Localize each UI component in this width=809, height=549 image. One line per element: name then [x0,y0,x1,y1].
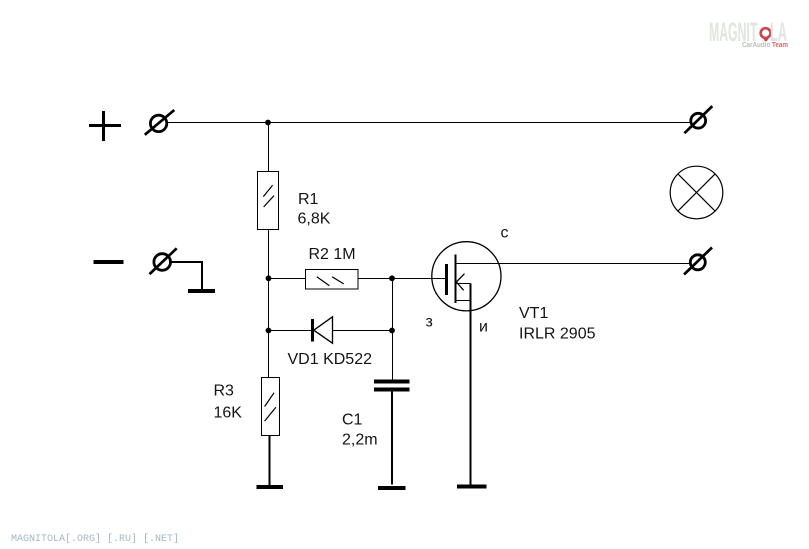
wire diode anode to junction [333,330,393,332]
wire R3 bottom to ground [269,436,271,486]
svg-text:R3: R3 [214,383,235,400]
transistor VT1 gate bar [445,264,448,295]
node junction R2 row [266,275,272,281]
wire top rail [167,122,691,124]
svg-text:R2 1M: R2 1M [309,246,356,263]
svg-text:R1: R1 [298,191,319,208]
capacitor C1 [374,382,410,390]
wire R2 to gate [358,278,447,280]
wire minus connector to ground [171,261,203,290]
plus terminal symbol [89,111,121,141]
connector top-right (lamp +) [684,106,712,133]
svg-text:з: з [426,314,433,331]
node junction diode row left [266,328,272,334]
node junction diode row right [389,328,395,334]
label VT1 IRLR 2905 [519,305,596,343]
wire junction to R1 top [268,122,270,172]
connector mid-left (- input) [150,248,177,274]
diode VD1 [313,317,333,343]
wire junction down to diode row [392,278,394,330]
wire drain lead to output [455,263,690,265]
wire junction down to C1 [392,331,394,381]
logo CarAudio Team [742,40,788,49]
node junction gate / C1 [389,275,395,281]
connector bottom-right (lamp -) [684,248,712,275]
wire junction to diode cathode [268,330,313,332]
connector top-left (+ input) [145,110,175,135]
ground R3 [256,485,283,489]
footer site url text [11,534,179,545]
svg-text:VD1 KD522: VD1 KD522 [288,351,373,368]
ground minus input [188,289,215,293]
svg-text:C1: C1 [342,412,363,429]
logo MAGNITOLA wordmark [709,17,757,48]
wire R1 bottom down to R3 [268,230,270,378]
svg-text:и: и [479,319,488,336]
svg-text:16K: 16K [214,405,243,422]
svg-text:6,8K: 6,8K [298,211,331,228]
logo red O ring [758,25,774,42]
node junction top rail / R1 [265,120,271,126]
ground source [457,485,487,489]
svg-text:IRLR 2905: IRLR 2905 [519,326,596,343]
transistor VT1 body connection with arrow [455,274,471,291]
transistor VT1 channel bar [455,254,457,303]
logo LA letters [770,17,787,48]
wire source down to ground [470,284,472,485]
wire C1 to ground [391,392,393,485]
svg-text:2,2m: 2,2m [342,432,378,449]
transistor VT1 source link [455,300,471,302]
minus terminal symbol [94,260,124,264]
wire junction to R2 [268,278,306,280]
lamp HL1 [670,166,723,219]
ground C1 [378,486,406,490]
svg-text:с: с [501,225,509,242]
resistor R2 [306,270,359,290]
transistor VT1 body circle [432,242,501,311]
label C1 2,2m [342,412,378,449]
svg-text:VT1: VT1 [519,305,548,322]
label R3 16K [214,383,243,422]
label R1 6,8K [298,191,331,228]
resistor R3 [262,378,280,436]
resistor R1 [258,172,279,230]
